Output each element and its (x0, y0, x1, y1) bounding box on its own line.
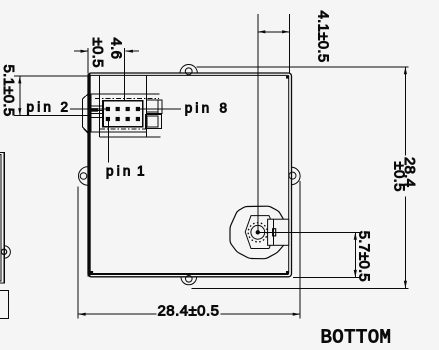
dim bottom 28.4 left extension line (77, 187, 79, 319)
shaft boss rectangle (268, 219, 289, 245)
dim bottom 28.4 right extension line (299, 181, 301, 319)
connector left key slot lower (91, 113, 103, 117)
pin 8 square (136, 107, 140, 111)
svg-text:28.4±0.5: 28.4±0.5 (158, 303, 220, 320)
bottom mounting ear (181, 277, 197, 285)
connector left key slot upper (91, 106, 103, 110)
dim 4.6 arrow left (81, 50, 89, 53)
connector lower right tab inner (147, 116, 158, 127)
right ear hole (289, 172, 296, 179)
dim 5.7 arrow bottom (354, 270, 357, 278)
connector housing inner bottom line (91, 131, 147, 133)
left mounting ear (79, 167, 88, 185)
dim right 28.4 line lower segment (404, 197, 406, 289)
connector left key slot upper fill (92, 108, 99, 112)
connector upper right tab inner bottom line (146, 111, 158, 113)
dim 5.7 bottom extension line (293, 276, 360, 278)
dim 5.7 arrow top (354, 232, 357, 240)
svg-text:1: 1 (137, 164, 145, 179)
connector left protrusion (83, 94, 88, 132)
dim right 28.4 arrow bottom (404, 281, 407, 289)
connector housing top line (90, 93, 160, 95)
left partial side view ear bump (4, 246, 10, 258)
svg-text:pin: pin (27, 100, 55, 115)
body bottom inner edge thick (90, 273, 289, 275)
svg-text:4.1±0.5: 4.1±0.5 (314, 11, 331, 63)
dim 4.6 arrow right (125, 50, 132, 53)
dim 4.6 line right tail (125, 50, 139, 52)
svg-text:8: 8 (220, 101, 228, 116)
body inner corner mark top-right (286, 76, 289, 79)
dim bottom 28.4 line left segment (78, 313, 156, 315)
svg-text:±0.5: ±0.5 (89, 38, 106, 68)
shaft horizontal center line (258, 231, 361, 233)
shaft hexagon (245, 216, 276, 249)
connector dash-dot top (95, 97, 159, 99)
dim right 28.4 bottom extension line (192, 287, 409, 289)
connector dash-dot bottom (100, 128, 146, 130)
dim 4.6 left extension line (87, 48, 89, 73)
right mounting ear (291, 167, 300, 184)
left partial side view inner edge (0, 155, 2, 281)
dim 4.1 arrow right (282, 30, 290, 33)
svg-text:±0.5: ±0.5 (391, 162, 408, 192)
bottom ear hole (186, 276, 193, 283)
body outer outline (88, 73, 292, 277)
connector lower right tab outer (145, 115, 161, 129)
shaft vertical center line (257, 14, 259, 232)
dim bottom 28.4 arrow right (293, 313, 301, 316)
dim 4.6 line left tail (74, 50, 88, 52)
top mounting ear (180, 64, 197, 73)
pin 5 square (126, 117, 130, 121)
body inner outline (90, 75, 289, 274)
connector housing bottom line (99, 136, 160, 138)
svg-text:5.7±0.5: 5.7±0.5 (355, 231, 372, 282)
connector pin field (103, 101, 143, 127)
svg-text:4.6: 4.6 (107, 38, 124, 60)
shaft center dot (256, 230, 260, 234)
pin 2 square (top row col1) (106, 107, 110, 111)
pin 4 square (116, 107, 120, 111)
top ear hole (185, 68, 192, 75)
connector left protrusion hatch (84, 129, 89, 134)
connector left step vertical (90, 94, 92, 132)
svg-text:pin: pin (185, 101, 213, 116)
dim 5.1 arrow bottom (18, 108, 21, 116)
shaft tick rect (273, 229, 276, 236)
svg-text:pin: pin (106, 164, 134, 179)
dim bottom 28.4 arrow left (78, 313, 86, 316)
dim 5.1 line (19, 76, 21, 116)
dim 4.1 line (258, 31, 290, 33)
shaft outer polygon (230, 206, 285, 259)
connector upper right tab (146, 100, 162, 114)
dim 5.7 line (354, 232, 356, 277)
dim 5.1 top extension line (14, 75, 88, 77)
pin 8 leader line (140, 108, 181, 110)
pin 3 square (116, 117, 120, 121)
shaft boss inner vertical line (273, 219, 275, 245)
dim 4.6 right extension line (124, 48, 126, 100)
dim 5.1 arrow top (18, 76, 21, 84)
body inner corner mark bottom-right (286, 271, 289, 274)
shaft dotted circle (248, 223, 267, 242)
svg-text:5.1±0.5: 5.1±0.5 (0, 65, 17, 117)
body left edge thick (88, 74, 91, 277)
dim 4.1 right extension line (289, 14, 291, 73)
left partial side view ear hole (1, 249, 6, 254)
pin 1 leader line (108, 121, 110, 162)
pin 7 square (136, 117, 140, 121)
dim right 28.4 top extension line (197, 66, 409, 68)
dim 4.1 arrow left (258, 30, 266, 33)
pin 2 leader line (70, 108, 106, 110)
dim bottom 28.4 line right segment (220, 313, 300, 315)
left partial side view outer edge (0, 153, 4, 284)
dim right 28.4 line upper segment (404, 67, 406, 156)
body inner corner mark bottom-left (91, 271, 94, 274)
dim 5.1 bottom extension line (14, 115, 88, 117)
pin 6 square (126, 107, 130, 111)
connector housing right side (145, 75, 147, 136)
left partial side view tab (0, 291, 9, 319)
dim right 28.4 arrow top (404, 67, 407, 75)
connector housing left side (98, 75, 100, 136)
svg-text:2: 2 (61, 100, 69, 115)
connector upper right tab inner line (157, 100, 159, 114)
pin 1 square (bottom row col1) (106, 117, 110, 121)
svg-text:BOTTOM: BOTTOM (321, 327, 392, 349)
left ear hole (80, 173, 87, 180)
shaft inner circle (251, 225, 265, 239)
